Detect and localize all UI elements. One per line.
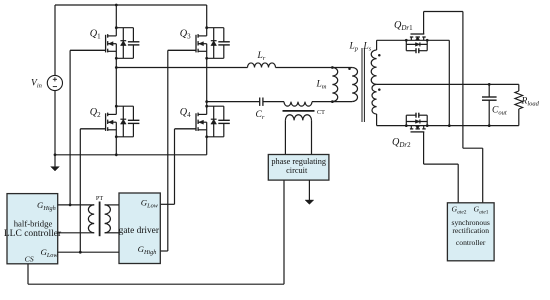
wire Q1 gate to controller GHigh	[70, 50, 106, 205]
capacitor Cout	[482, 83, 507, 127]
svg-text:QDr1: QDr1	[394, 20, 413, 32]
transformer PT secondary	[105, 205, 119, 233]
svg-text:CS: CS	[25, 254, 34, 263]
node top-left junction	[115, 4, 118, 28]
svg-text:Lr: Lr	[257, 51, 266, 62]
wire phase circuit output to ground	[308, 180, 310, 199]
svg-text:half-bridge: half-bridge	[14, 218, 53, 228]
transformer primary Lp	[348, 67, 357, 101]
svg-text:Cr: Cr	[256, 110, 265, 121]
transformer PT primary	[58, 204, 94, 233]
wire top rail	[55, 4, 207, 6]
wire center tap output rail	[377, 83, 519, 85]
transistor Q3	[168, 26, 230, 59]
wire left leg middle	[115, 58, 117, 106]
svg-text:gate driver: gate driver	[119, 226, 160, 236]
svg-text:rectification: rectification	[452, 226, 489, 235]
ground phase circuit	[305, 199, 314, 204]
svg-text:Q3: Q3	[180, 28, 191, 40]
wire right leg middle	[206, 58, 208, 106]
svg-text:Vin: Vin	[31, 79, 42, 90]
capacitor Cr	[256, 98, 265, 122]
node B bridge output right	[205, 100, 208, 103]
svg-text:Q2: Q2	[90, 107, 101, 119]
transistor Q4	[175, 105, 230, 138]
wire Q4 gate to driver GLow	[160, 129, 196, 204]
ground input	[51, 155, 60, 171]
svg-text:CT: CT	[317, 109, 325, 116]
svg-text:Q4: Q4	[180, 107, 191, 119]
current transformer CT core	[283, 109, 326, 116]
svg-text:PT: PT	[96, 195, 103, 202]
svg-text:Cout: Cout	[492, 106, 507, 117]
transformer secondary Ls	[371, 50, 380, 114]
transistor QDr1	[394, 12, 429, 54]
transformer PT core	[96, 195, 103, 236]
resistor Rload	[515, 84, 540, 125]
wire node A to transformer top	[116, 67, 352, 69]
wire Q2 gate to controller GLow	[80, 129, 105, 252]
wire left leg vertical	[54, 5, 56, 155]
box phase regulating circuit	[268, 155, 329, 181]
wire QDr2 gate to Gate2	[424, 164, 459, 203]
svg-text:Lm: Lm	[316, 80, 327, 91]
svg-text:Q1: Q1	[90, 28, 101, 40]
transformer core	[349, 41, 372, 122]
wire node B to Cr	[207, 101, 260, 103]
wire right leg bottom	[206, 137, 208, 155]
source Vin	[31, 75, 63, 90]
current transformer CT primary	[284, 102, 312, 107]
wire QDr1 drain down	[427, 40, 450, 127]
box synchronous rectification controller	[447, 203, 494, 261]
node A bridge output left	[115, 66, 118, 69]
wire Cr to CT	[263, 101, 284, 103]
svg-text:Lp: Lp	[349, 41, 359, 52]
transistor Q1	[70, 26, 139, 59]
wire Ls bottom to QDr2	[377, 114, 407, 126]
svg-text:circuit: circuit	[286, 166, 308, 175]
transistor Q2	[80, 105, 139, 138]
wire Q3 gate to driver GHigh	[160, 50, 196, 251]
wire QDr1 gate rail	[424, 12, 483, 203]
wire output bottom rail	[427, 125, 519, 127]
svg-text:controller: controller	[456, 238, 486, 247]
inductor Lr	[248, 51, 276, 68]
wire CT to Lm	[312, 101, 352, 103]
inductor Lm	[316, 66, 338, 103]
svg-text:phase regulating: phase regulating	[271, 157, 326, 166]
wire bottom rail	[54, 153, 207, 156]
wire controller GLow to driver	[58, 251, 119, 254]
svg-text:Rload: Rload	[521, 96, 540, 107]
box half-bridge LLC controller	[4, 194, 62, 264]
wire Ls top to QDr1	[377, 40, 407, 50]
current transformer CT secondary	[285, 115, 311, 155]
box gate driver	[119, 193, 161, 264]
svg-text:LLC controller: LLC controller	[4, 229, 62, 239]
svg-text:Ls: Ls	[363, 41, 372, 52]
transistor QDr2	[392, 113, 429, 164]
wire CS to phase regulating circuit	[28, 180, 284, 284]
wire right leg drop	[206, 5, 208, 28]
svg-text:QDr2: QDr2	[392, 137, 411, 149]
wire left leg bottom	[115, 137, 117, 155]
